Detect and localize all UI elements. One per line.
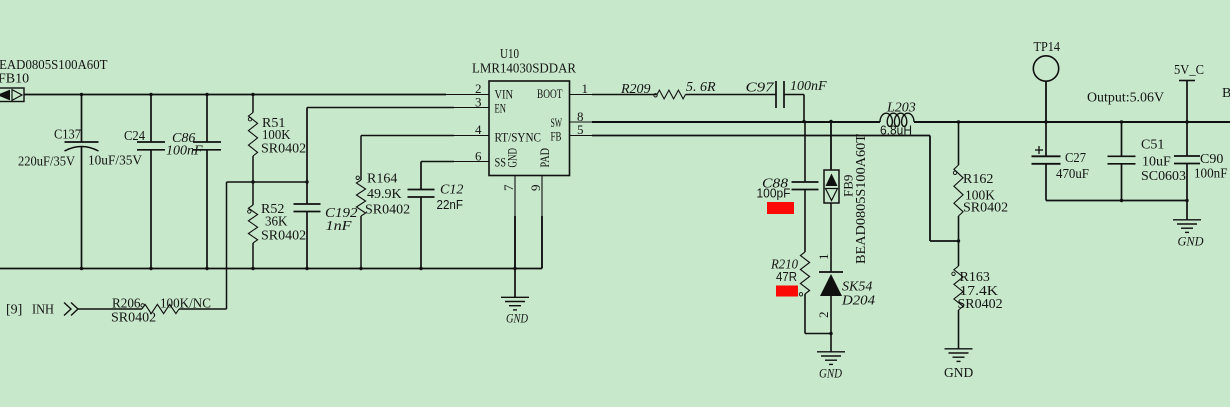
svg-text:1: 1 — [816, 254, 831, 261]
capacitor C88 — [792, 182, 819, 252]
svg-text:U10: U10 — [500, 47, 519, 62]
svg-text:RT/SYNC: RT/SYNC — [495, 129, 542, 144]
svg-text:220uF/35V: 220uF/35V — [18, 155, 75, 170]
test point TP14 — [1033, 56, 1058, 122]
wire SW to FB9 — [830, 122, 832, 171]
svg-text:100nF: 100nF — [1194, 167, 1228, 182]
wire SW to C88 — [804, 122, 806, 183]
svg-text:10uF/35V: 10uF/35V — [88, 154, 142, 169]
svg-text:GND: GND — [506, 311, 528, 326]
diode D204 — [819, 272, 843, 334]
wire FB stub — [570, 135, 593, 137]
svg-text:L203: L203 — [886, 101, 916, 116]
svg-text:R164: R164 — [367, 172, 397, 187]
svg-text:SK54: SK54 — [842, 280, 872, 295]
svg-text:SR0402: SR0402 — [111, 311, 156, 326]
svg-text:C27: C27 — [1065, 151, 1086, 166]
wire RT/SYNC — [361, 135, 454, 137]
svg-text:7: 7 — [501, 184, 516, 191]
capacitor C24 — [137, 95, 165, 269]
svg-text:LMR14030SDDAR: LMR14030SDDAR — [472, 62, 577, 77]
wire snubber to gnd — [805, 333, 831, 335]
svg-text:TP14: TP14 — [1034, 40, 1061, 55]
highlight red (R210) — [776, 286, 798, 297]
svg-text:100pF: 100pF — [757, 186, 791, 201]
svg-text:5V_C: 5V_C — [1174, 63, 1204, 78]
svg-text:BEAD0805S100A60T: BEAD0805S100A60T — [853, 133, 868, 264]
svg-text:6: 6 — [475, 149, 482, 164]
svg-text:5. 6R: 5. 6R — [686, 80, 716, 95]
svg-text:Output:5.06V: Output:5.06V — [1087, 91, 1164, 106]
svg-text:C97: C97 — [746, 81, 775, 96]
wire EN — [307, 107, 454, 109]
wire BOOT — [592, 94, 657, 96]
svg-text:100nF: 100nF — [790, 79, 827, 94]
wire FB vertical — [929, 136, 931, 242]
wire SW stub — [570, 121, 593, 123]
wire EN stub — [454, 107, 489, 109]
svg-text:47R: 47R — [776, 269, 797, 284]
svg-text:470uF: 470uF — [1056, 167, 1089, 182]
capacitor C27 — [1032, 122, 1061, 201]
wire EN node vertical — [226, 182, 228, 309]
svg-text:R162: R162 — [963, 172, 993, 187]
svg-text:FB10: FB10 — [0, 72, 29, 87]
svg-text:GND: GND — [1178, 234, 1205, 249]
wire INH left — [78, 308, 142, 310]
resistor R210 — [799, 252, 809, 296]
capacitor C86 — [193, 95, 221, 269]
svg-text:36K: 36K — [265, 215, 288, 230]
svg-text:BOOT: BOOT — [537, 86, 563, 101]
wire pin7 — [514, 176, 516, 269]
capacitor C97 — [776, 81, 804, 122]
svg-text:INH: INH — [32, 303, 54, 318]
inductor L203 — [880, 113, 914, 126]
power port 5V_C — [1179, 81, 1195, 123]
svg-text:C137: C137 — [54, 128, 81, 143]
svg-text:R163: R163 — [960, 270, 990, 285]
svg-text:10uF: 10uF — [1142, 155, 1171, 170]
wire FB — [592, 135, 930, 137]
ground R163 — [945, 348, 973, 350]
ground D204 — [817, 334, 845, 365]
svg-text:D204: D204 — [841, 294, 875, 309]
svg-text:22nF: 22nF — [437, 197, 464, 212]
svg-text:1nF: 1nF — [326, 219, 353, 234]
svg-text:VIN: VIN — [495, 87, 514, 102]
svg-text:SR0402: SR0402 — [958, 297, 1003, 312]
svg-text:9: 9 — [528, 185, 543, 192]
resistor R209 — [654, 90, 686, 99]
chevron INH — [64, 303, 78, 316]
svg-text:GND: GND — [944, 365, 973, 380]
svg-text:SC0603: SC0603 — [1141, 169, 1186, 184]
svg-text:100nF: 100nF — [166, 144, 203, 159]
svg-text:GND: GND — [819, 366, 843, 381]
svg-text:SR0402: SR0402 — [261, 142, 306, 157]
wire RT/SYNC stub — [454, 135, 489, 137]
svg-text:2: 2 — [816, 312, 831, 319]
ferrite bead FB9 — [824, 170, 839, 203]
svg-text:FB: FB — [551, 128, 562, 143]
svg-text:C12: C12 — [440, 183, 463, 198]
svg-text:B: B — [1222, 86, 1230, 101]
wire VIN rail — [24, 94, 446, 96]
wire ground bus — [0, 268, 542, 270]
wire SW — [592, 121, 880, 123]
resistor R162 — [953, 122, 963, 241]
svg-text:SR0402: SR0402 — [261, 229, 306, 244]
resistor R206 — [141, 304, 179, 314]
svg-text:49.9K: 49.9K — [367, 187, 402, 202]
svg-text:4: 4 — [475, 122, 482, 137]
wire EN node horizontal — [227, 181, 308, 183]
resistor R52 — [248, 182, 258, 269]
wire VIN pin stub — [446, 94, 489, 96]
svg-text:GND: GND — [506, 148, 520, 168]
capacitor C192 — [294, 108, 321, 269]
highlight red (C88) — [767, 202, 794, 214]
ground output — [1173, 201, 1201, 233]
svg-text:R209: R209 — [620, 82, 651, 97]
wire SS stub — [454, 161, 489, 163]
svg-text:EN: EN — [495, 101, 507, 116]
svg-text:SS: SS — [495, 155, 507, 170]
svg-text:C24: C24 — [124, 129, 145, 144]
svg-text:SR0402: SR0402 — [963, 201, 1008, 216]
capacitor C137 — [65, 95, 99, 269]
svg-text:[9]: [9] — [6, 303, 22, 318]
wire R209 to C97 — [686, 94, 777, 96]
resistor R51 — [248, 95, 257, 183]
wire BOOT stub — [570, 94, 593, 96]
wire FB to divider — [930, 240, 959, 242]
wire INH right — [179, 308, 227, 310]
svg-text:R206: R206 — [112, 297, 141, 312]
svg-text:5: 5 — [577, 122, 584, 137]
svg-text:1: 1 — [582, 81, 589, 96]
wire R210 down — [804, 294, 806, 334]
svg-text:SR0402: SR0402 — [365, 203, 410, 218]
resistor R163 — [952, 241, 963, 349]
ferrite bead FB10 — [0, 88, 24, 102]
svg-text:PAD: PAD — [538, 148, 552, 168]
wire output rail — [914, 121, 1230, 123]
wire SS — [421, 161, 454, 163]
capacitor C12 — [408, 162, 435, 269]
op-amp U10 body — [489, 81, 570, 176]
wire pin9 — [541, 176, 543, 269]
capacitor C51 — [1108, 122, 1136, 201]
svg-text:C51: C51 — [1141, 138, 1164, 153]
capacitor C90 — [1174, 122, 1200, 201]
wire FB9 to D204 — [830, 203, 832, 272]
svg-text:C90: C90 — [1200, 152, 1223, 167]
svg-text:3: 3 — [475, 95, 482, 110]
ground U10 — [501, 269, 529, 310]
resistor R164 — [356, 136, 366, 269]
wire output bottom bus — [1046, 200, 1187, 202]
